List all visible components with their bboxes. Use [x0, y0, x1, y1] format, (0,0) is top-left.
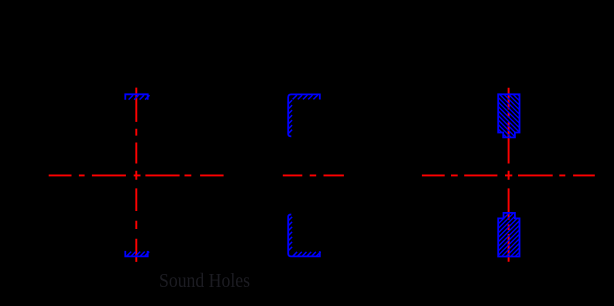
view 2 top angle-section outline	[288, 94, 320, 136]
view 3 bottom section hatch	[498, 213, 519, 257]
view 3 top section hatch	[498, 95, 519, 138]
view 2 top angle-section hatch	[289, 95, 318, 133]
view 2 bottom angle-section hatch	[289, 217, 321, 256]
view 1 bottom strip hatch	[127, 252, 149, 256]
view 3 bottom section outline	[498, 213, 519, 257]
view 1 top thin-section strip outline	[125, 94, 147, 100]
view 2 bottom angle-section outline	[288, 214, 320, 256]
view 1 top strip hatch	[129, 95, 150, 99]
view 3 horizontal centerline	[422, 174, 595, 176]
view 2 horizontal centerline	[283, 174, 344, 176]
view 1 bottom thin-section strip outline	[125, 251, 147, 257]
view 1 vertical centerline	[135, 88, 137, 262]
view 3 vertical centerline	[508, 88, 510, 262]
view 1 horizontal centerline	[49, 174, 224, 176]
view 3 top section outline	[498, 94, 519, 137]
svg-text:Sound Holes: Sound Holes	[159, 271, 250, 292]
